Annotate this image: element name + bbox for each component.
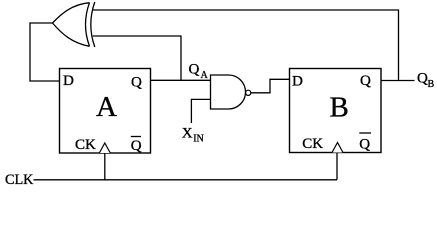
wire: NAND output to D input of B [251, 79, 290, 93]
NAND gate G2 [211, 75, 251, 109]
svg-text:CK: CK [302, 136, 323, 152]
node label QA [189, 62, 209, 81]
XOR gate G1 [53, 2, 95, 47]
svg-text:Q: Q [131, 75, 142, 91]
flip-flop B [290, 69, 382, 153]
node label XIN [182, 125, 204, 144]
svg-text:B: B [330, 91, 349, 123]
svg-text:CLK: CLK [5, 172, 34, 188]
svg-text:CK: CK [75, 137, 96, 153]
svg-text:Q: Q [359, 137, 370, 153]
pin label Qbar (A) [131, 137, 142, 155]
flip-flop A [60, 69, 151, 154]
svg-text:D: D [63, 73, 74, 89]
clock edge triangle (A) [99, 143, 110, 153]
svg-text:Q: Q [189, 62, 200, 78]
node label QB [417, 71, 435, 91]
svg-text:Q: Q [360, 73, 371, 89]
svg-text:A: A [96, 91, 117, 123]
wire: CLK rail [34, 179, 338, 181]
wire: XIN to NAND bottom input [191, 99, 210, 123]
svg-text:Q: Q [131, 138, 142, 154]
svg-text:Q: Q [417, 71, 428, 87]
wire: QB feedback to XOR top input [93, 10, 399, 81]
wire: Q of A to NAND top input (node QA) [151, 79, 211, 81]
wire: QA feedback to XOR bottom input [93, 36, 181, 80]
wire: XOR output to D input of A [30, 23, 60, 81]
svg-text:D: D [292, 73, 303, 89]
svg-text:X: X [182, 125, 193, 141]
svg-text:A: A [201, 70, 209, 81]
pin label Qbar (B) [359, 133, 371, 153]
svg-text:B: B [428, 79, 435, 90]
wire: CLK drop to CK of B [336, 153, 338, 180]
svg-text:IN: IN [193, 133, 204, 144]
wire: Q of B to node QB [381, 80, 415, 82]
clock edge triangle (B) [332, 143, 343, 153]
wire: CLK drop to CK of A [104, 153, 106, 180]
